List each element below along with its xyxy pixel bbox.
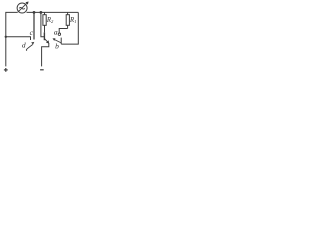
- switch lever c-d arrow: [26, 45, 32, 51]
- svg-text:a: a: [54, 28, 58, 37]
- wire top rail: [27, 11, 79, 13]
- svg-text:R1: R1: [69, 17, 76, 24]
- AC generator needle arrow: [18, 3, 27, 12]
- node junction dot: [33, 11, 36, 14]
- battery + terminal: [4, 68, 8, 72]
- node junction dot: [5, 36, 7, 38]
- wire left rail: [6, 12, 18, 66]
- svg-text:c: c: [30, 28, 34, 37]
- battery - terminal: [40, 69, 44, 71]
- wire base feed: [41, 12, 44, 36]
- svg-text:d: d: [22, 41, 26, 50]
- wire emitter path: [42, 43, 49, 66]
- svg-text:b: b: [55, 42, 59, 51]
- wire bottom right: [61, 12, 78, 44]
- wire b post: [60, 38, 62, 45]
- terminal a contact circle: [58, 33, 60, 35]
- AC generator G circle: [17, 3, 27, 13]
- AC generator sine: [19, 8, 25, 10]
- svg-text:R2: R2: [46, 17, 54, 24]
- transistor emitter arrow: [45, 39, 49, 43]
- node junction dot: [40, 11, 43, 14]
- resistor R1: [66, 15, 69, 26]
- wire switch post (d contact): [33, 12, 35, 39]
- wire R1 to terminal a: [59, 29, 67, 34]
- wire c branch: [6, 37, 31, 40]
- transistor bar: [43, 32, 45, 40]
- resistor R2: [43, 15, 46, 26]
- switch lever a-b arrow: [55, 40, 62, 43]
